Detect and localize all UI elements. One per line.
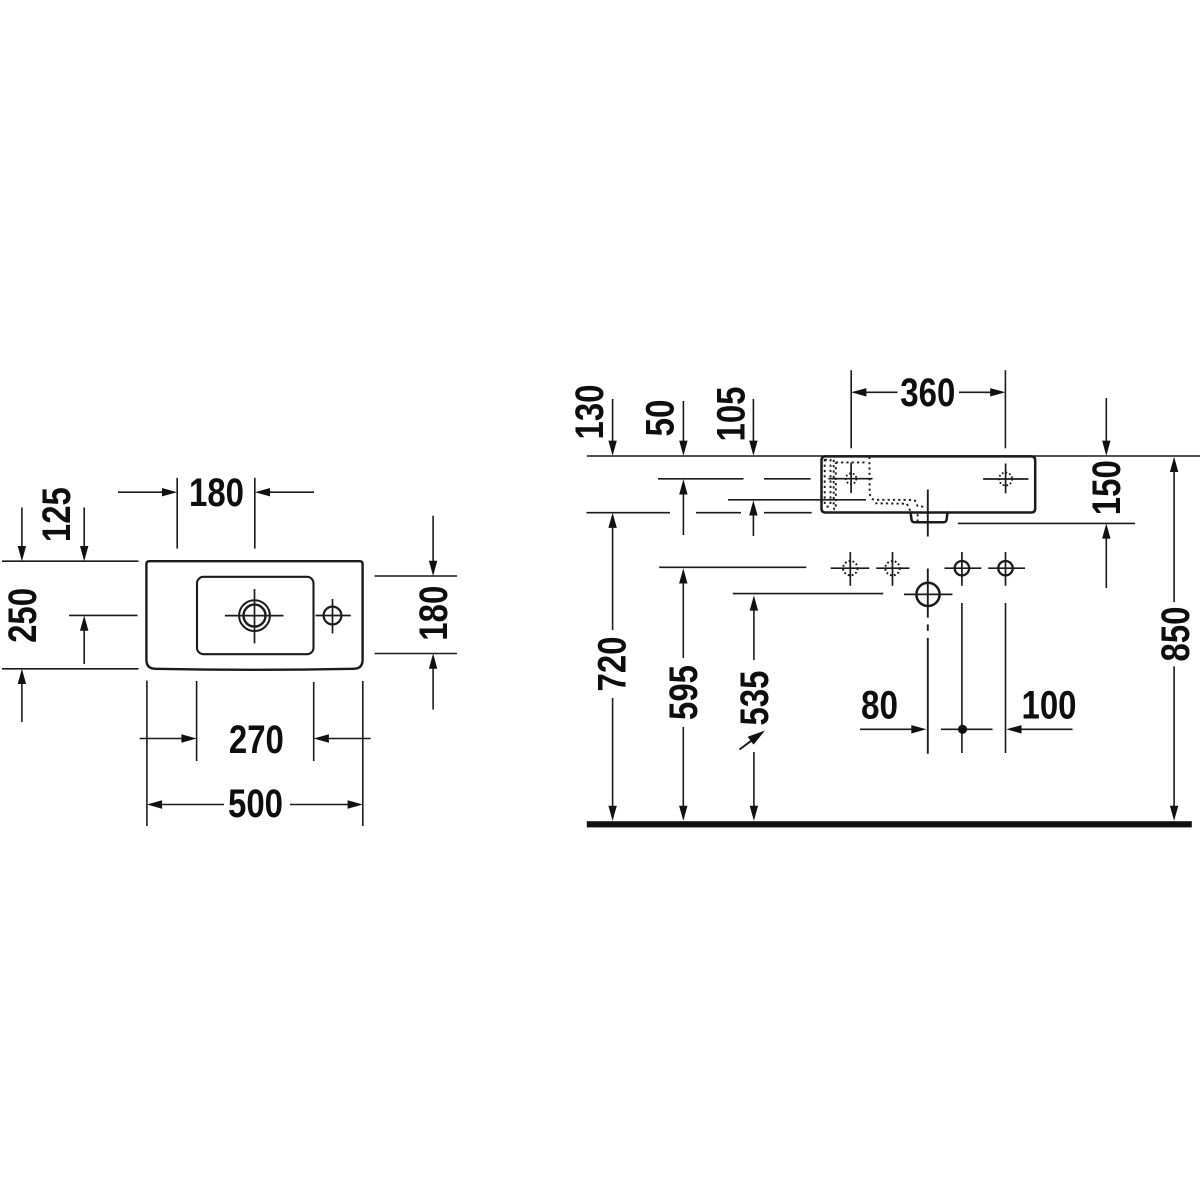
dim 535: top arrow and line: [750, 595, 758, 610]
svg-text:535: 535: [733, 671, 777, 726]
side-view faucet hole dotted circle: [846, 473, 857, 484]
faucet level centerline segments: [658, 478, 744, 480]
interior dotted: inner rim wall: [834, 460, 836, 510]
outlet bottom leader line: [958, 522, 1135, 524]
bottom extension line inner-left: [196, 681, 198, 761]
dim 180 top: left extension line: [176, 478, 178, 549]
hole extension line below right1: [961, 603, 963, 753]
faucet centerline vertical: [254, 589, 256, 643]
dim 80/100 shared middle segment with dot: [941, 728, 993, 730]
dim 500: right arrow: [290, 804, 355, 806]
dim 50: top arrow: [682, 401, 684, 448]
svg-text:125: 125: [35, 487, 79, 542]
overflow level line: [728, 499, 866, 501]
dim 360: left arrow: [859, 391, 897, 393]
dim 180 right: bottom arrow: [432, 662, 434, 710]
interior dotted: lower slope line: [875, 503, 911, 513]
dim 130: arrow: [612, 399, 614, 448]
fixing hole right2 circle: [998, 561, 1012, 575]
side tap hole centerline horizontal: [316, 615, 351, 617]
drain centerline horizontal: [904, 593, 952, 595]
left: centerline extension: [69, 614, 138, 616]
dim 500: left arrow: [155, 804, 224, 806]
basin top-view inner bowl outline: [197, 577, 314, 654]
side-view fixing hole dotted circle: [999, 473, 1012, 486]
svg-text:850: 850: [1154, 607, 1198, 662]
fixing hole right2 centerlines: [1005, 552, 1007, 586]
wall / basin top level line: [587, 455, 1200, 457]
dim 270: left arrow: [140, 738, 189, 740]
fixing hole left centerlines: [849, 552, 851, 586]
basin side-view outline: [822, 456, 1036, 522]
hole extension line below right2: [1005, 603, 1007, 753]
dim 100: arrow: [1015, 728, 1073, 730]
svg-text:180: 180: [412, 586, 456, 641]
dim 180 top: left arrow: [118, 491, 169, 493]
dim 80: arrow: [860, 728, 918, 730]
svg-text:270: 270: [229, 718, 284, 762]
dim 150: top arrow: [1105, 398, 1107, 448]
drain level line: [733, 593, 884, 595]
dim 595: top arrow and line: [679, 568, 687, 583]
svg-text:105: 105: [709, 387, 753, 442]
dim 850: bottom line and arrow: [1173, 666, 1175, 812]
svg-text:720: 720: [590, 637, 634, 692]
dim 50: bottom arrow: [682, 488, 684, 536]
dim 270: right arrow: [322, 738, 371, 740]
basin bottom edge across outlet boss: [911, 511, 948, 514]
dim 720: bottom line and arrow: [612, 698, 614, 813]
dim 720: top arrow and line: [608, 513, 616, 528]
dim 360: left extension line: [850, 370, 852, 448]
dim 105: bottom arrow: [752, 509, 754, 537]
svg-text:50: 50: [638, 400, 682, 437]
dim 535: bottom line and arrow: [753, 752, 755, 813]
bottom extension line inner-right: [313, 682, 315, 761]
mounting reference diagonal arrow: [740, 740, 753, 749]
dim 595: bottom line and arrow: [682, 727, 684, 813]
svg-text:80: 80: [861, 684, 898, 728]
svg-text:595: 595: [662, 665, 706, 720]
faucet hole outer circle: [239, 600, 270, 631]
fixing hole left dotted circle: [843, 561, 857, 575]
interior dotted: outlet channel: [917, 514, 919, 521]
left: bottom edge extension line: [2, 668, 139, 670]
basin top-view outer outline: [146, 561, 362, 670]
dim 360: right arrow: [959, 391, 997, 393]
svg-text:130: 130: [568, 385, 612, 440]
dim 250: top arrow: [21, 508, 23, 554]
dim 105: top arrow: [752, 399, 754, 448]
dim 180 right: top extension line: [375, 575, 457, 577]
dim 250: bottom arrow: [21, 677, 23, 722]
side-view fixing hole centerline horizontal: [983, 478, 1028, 480]
side tap hole circle: [324, 607, 342, 625]
svg-text:250: 250: [1, 588, 45, 643]
faucet hole inner circle: [244, 605, 266, 627]
faucet centerline horizontal: [225, 615, 284, 617]
drain centerline vertical segments: [927, 490, 929, 537]
dim 150: bottom arrow: [1105, 532, 1107, 588]
floor line: [587, 821, 1192, 827]
interior dotted: bowl rim top: [836, 461, 866, 463]
interior dotted: bowl right wall and slope to drain: [869, 457, 926, 507]
svg-text:360: 360: [900, 371, 955, 415]
interior dotted: left outer wall loop: [825, 460, 831, 507]
dim 850: top arrow and line: [1170, 457, 1178, 472]
dim 180 top: right arrow: [263, 491, 314, 493]
dim 180 right: top arrow: [432, 516, 434, 568]
side-view faucet centerline horizontal: [828, 478, 872, 480]
fixing holes level line: [659, 566, 806, 568]
fixing hole right1 circle: [955, 561, 969, 575]
dim 125: bottom arrow: [83, 624, 85, 664]
dim 180 right: bottom extension line: [375, 653, 457, 655]
basin underside level line segments: [587, 512, 671, 514]
side-view faucet centerline vertical: [850, 463, 852, 494]
svg-text:180: 180: [189, 471, 244, 515]
bottom extension line far left: [146, 681, 148, 826]
dim 360: right extension line: [1004, 370, 1006, 448]
drain circle: [916, 583, 939, 606]
svg-text:500: 500: [228, 782, 283, 826]
bottom extension line far right: [362, 681, 364, 826]
svg-text:100: 100: [1022, 684, 1077, 728]
left: top edge extension line: [2, 560, 139, 562]
dim 180 top: right extension line: [254, 478, 256, 549]
dim 125: top arrow: [83, 508, 85, 554]
fixing hole left2 dotted circle: [885, 561, 899, 575]
fixing hole left2 centerlines: [892, 552, 894, 586]
fixing hole right1 centerlines: [961, 552, 963, 586]
side tap hole centerline vertical: [332, 599, 334, 634]
svg-text:150: 150: [1085, 460, 1129, 515]
side-view fixing hole centerline vertical: [1005, 464, 1007, 494]
